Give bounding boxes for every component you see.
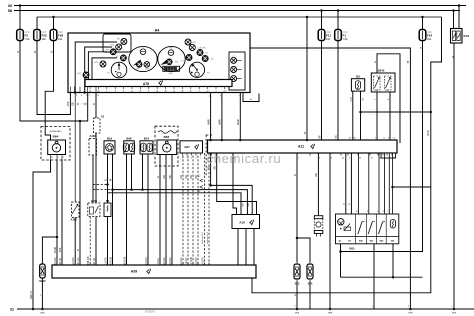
lamp H2 cluster [110, 49, 116, 55]
svg-text:10A: 10A [326, 38, 331, 41]
wire A153 to A39 [95, 217, 97, 266]
node DPN ground [409, 308, 412, 311]
relay A153 dashed [88, 203, 100, 217]
node B2 branch [359, 111, 362, 114]
svg-text:58: 58 [8, 9, 12, 13]
svg-text:9/58 GB: 9/58 GB [87, 256, 90, 265]
A11 bottom pin ticks and numbers [211, 153, 213, 156]
lamp S13 [294, 264, 300, 279]
wire S6-B pin to A11 a [376, 92, 378, 140]
node A11 top 1 [209, 139, 212, 142]
wire B2 right pin to A11 [360, 91, 362, 140]
svg-text:12 (GB): 12 (GB) [190, 257, 193, 266]
wire dashed A153 junction lower [93, 189, 113, 191]
svg-text:20: 20 [223, 91, 225, 93]
svg-text:3: 3 [76, 95, 77, 97]
node step s1 [209, 184, 212, 187]
wire S14 to bus31 [309, 280, 311, 309]
wire B96 left to A39 [126, 154, 128, 265]
wire branch 80 to A39 [79, 121, 81, 265]
fuse F26 [50, 30, 57, 41]
svg-text:GN: GN [186, 175, 188, 179]
fuse F2 [17, 30, 24, 41]
node A11 top 30 [306, 139, 309, 142]
wire jog br under cluster [243, 93, 259, 102]
module A87 [180, 141, 203, 153]
svg-text:abcband 1-3: abcband 1-3 [207, 231, 209, 244]
node bus30-K79 [458, 4, 461, 7]
cluster bottom pin stubs with wire labels [69, 87, 71, 93]
svg-text:28: 28 [359, 158, 361, 160]
fuse F24 [419, 30, 426, 41]
svg-text:(GR): (GR) [40, 313, 45, 315]
svg-text:B19: B19 [107, 136, 113, 140]
wire dashed A153 junction upper [93, 184, 108, 186]
svg-text:GN: GN [164, 175, 166, 179]
svg-text:K79: K79 [464, 34, 470, 38]
lamp T3 column [231, 76, 237, 82]
svg-text:GB: GB [243, 203, 245, 207]
svg-text:GR: GR [316, 173, 318, 177]
svg-text:GN: GN [181, 175, 183, 179]
wire branch to S100 [42, 237, 57, 264]
svg-text:30 (GB): 30 (GB) [110, 257, 113, 266]
wire A11 to A16 step s4 [217, 153, 257, 215]
fuse F11 [318, 30, 325, 41]
wire A11 to bus31 via 330 [329, 153, 331, 309]
lamp H8 cluster [121, 39, 127, 45]
svg-text:B14: B14 [144, 136, 150, 140]
svg-text:34 (R): 34 (R) [55, 247, 57, 254]
svg-text:7: 7 [239, 96, 240, 98]
wire branch to S14 [297, 238, 310, 263]
svg-text:GN: GN [196, 175, 198, 179]
svg-text:S6-B: S6-B [378, 69, 386, 73]
svg-text:B2: B2 [356, 75, 360, 79]
lamp H9 cluster right [185, 39, 191, 45]
svg-text:MAR: MAR [207, 119, 210, 124]
buzzer B34 [314, 216, 323, 219]
wires A11 to switch unit S61 [358, 153, 360, 214]
wire cluster to A11 (MAR 2) [221, 93, 223, 141]
lamp H6 in speedometer [136, 62, 142, 68]
svg-text:1: 1 [200, 158, 201, 160]
svg-text:DPB: DPB [328, 313, 333, 315]
speedometer trip knob [140, 49, 146, 55]
wires A87 dashed to A39 [182, 156, 184, 266]
wire cluster internal L1 [75, 42, 117, 93]
svg-text:67: 67 [335, 138, 337, 140]
svg-text:A76: A76 [143, 82, 149, 86]
svg-text:DPN: DPN [408, 313, 413, 315]
svg-text:abcband 1-3: abcband 1-3 [202, 231, 204, 244]
svg-text:2: 2 [294, 306, 295, 308]
svg-text:MAR: MAR [237, 119, 240, 124]
svg-text:24: 24 [383, 138, 385, 140]
node B4 loop junction [392, 276, 395, 279]
wire F2 to cluster pin [20, 41, 88, 122]
wire B19 step to A16 [113, 190, 248, 215]
tachometer needle [161, 59, 169, 65]
wire B14 right to A39 [147, 154, 149, 265]
svg-text:A39: A39 [131, 270, 137, 274]
svg-text:6: 6 [377, 211, 378, 213]
svg-text:8 (GB): 8 (GB) [163, 257, 166, 264]
svg-text:10A: 10A [58, 38, 63, 41]
wire S61 to loop [340, 243, 342, 245]
wire S8 to A39 [107, 217, 109, 266]
svg-text:31 (G): 31 (G) [77, 257, 80, 264]
svg-text:4 (GN): 4 (GN) [195, 257, 198, 264]
svg-text:F26: F26 [58, 33, 64, 37]
svg-text:31: 31 [10, 308, 14, 312]
node S100 branch [56, 236, 59, 239]
lamp KM in tachometer [167, 59, 173, 65]
svg-text:5: 5 [58, 157, 59, 159]
wire bus30 to K79 [458, 6, 460, 29]
gauge P4 clock [111, 62, 127, 78]
svg-text:(31): (31) [351, 97, 353, 101]
svg-text:+C39+H8: +C39+H8 [197, 48, 207, 50]
svg-text:GB: GB [72, 102, 74, 106]
A39 top pin ticks [56, 263, 58, 266]
node B64 ground [32, 308, 35, 311]
switch unit S6-B [371, 73, 395, 92]
svg-text:7,5A: 7,5A [25, 38, 30, 41]
wire cluster internal L3 [88, 52, 107, 80]
lamp unit B14 [140, 141, 153, 154]
wire A11 dashed branch 1 [204, 153, 206, 265]
svg-text:2: 2 [106, 91, 107, 93]
svg-text:B96: B96 [126, 136, 132, 140]
wire A11 to A16 step s1 [211, 153, 253, 215]
wire bus30 to F2 [19, 6, 21, 30]
svg-text:DPS: DPS [295, 313, 300, 315]
lamp T1 column [231, 57, 237, 63]
svg-text:58L: 58L [386, 90, 389, 92]
svg-text:9 (GR): 9 (GR) [54, 257, 57, 264]
wire A11 to S61 pin b [350, 153, 352, 214]
wires A16 to A39 [237, 229, 239, 266]
svg-text:GB: GB [215, 166, 217, 170]
node A11 top 2 [221, 139, 224, 142]
svg-text:(HY.RELAY): (HY.RELAY) [50, 130, 62, 133]
node S100 ground [41, 308, 44, 311]
svg-text:3 (GN): 3 (GN) [169, 257, 172, 264]
S61 relay element [344, 227, 351, 231]
relay B64 [48, 140, 66, 155]
wire B64 pin5 down [56, 160, 58, 266]
wire A11 to A16 step s5 [233, 153, 237, 215]
B64 pin ticks [50, 155, 52, 160]
svg-text:X1: X1 [101, 115, 105, 119]
lamp T2 column [231, 67, 237, 73]
svg-text:10: 10 [356, 211, 358, 213]
svg-text:2 (GR): 2 (GR) [145, 257, 148, 264]
module A16 [232, 215, 260, 229]
wire B64 pin4 to A39 [61, 160, 63, 266]
svg-text:22: 22 [173, 91, 175, 93]
svg-text:4: 4 [388, 138, 389, 140]
svg-text:F1: F1 [343, 33, 347, 37]
wire cluster internal L2 [85, 47, 112, 93]
feed wire 15/58 horizontal [37, 16, 442, 18]
svg-text:5: 5 [182, 158, 183, 160]
tachometer knob RB [168, 50, 174, 56]
svg-text:GB: GB [248, 203, 250, 207]
svg-text:10A: 10A [427, 38, 432, 41]
relay K79 [451, 29, 463, 44]
relay box B64 dashed [41, 127, 70, 161]
wire B19 left to S8 [107, 154, 109, 203]
node bus30-F2 [19, 4, 22, 7]
wire F1 to A11 [337, 41, 339, 141]
svg-text:3: 3 [408, 306, 409, 308]
node bus58-F11 [320, 9, 323, 12]
wire S61 S32 to bus31 [373, 244, 375, 309]
wire B96 right to junction [131, 154, 133, 190]
switch S100 [40, 264, 46, 278]
svg-text:9/58: 9/58 [60, 247, 62, 252]
wire S8 branch step to A16 [108, 185, 242, 215]
svg-text:F2: F2 [25, 33, 29, 37]
dashed enclosure edge left of A11 [205, 135, 207, 175]
wire A11 to buzzer B34 [317, 153, 319, 216]
wire A11 to S61 pin a [345, 153, 347, 214]
svg-text:30: 30 [8, 4, 12, 8]
svg-text:S8: S8 [106, 199, 110, 203]
wire S6-B pin to A11 b [389, 92, 391, 140]
lamp H7 cluster [120, 55, 126, 61]
wire S61 B4 pin down [392, 244, 394, 277]
svg-text:10A: 10A [42, 38, 47, 41]
svg-text:2: 2 [89, 95, 90, 97]
connector A163 dashed [89, 139, 97, 156]
svg-text:1: 1 [86, 95, 87, 97]
cluster lamp column box [229, 52, 245, 90]
svg-text:6 (GR): 6 (GR) [180, 257, 183, 264]
node S13 ground [296, 308, 299, 311]
svg-text:3K30007: 3K30007 [145, 310, 156, 314]
node S61 feed junction [391, 186, 394, 189]
svg-text:1: 1 [298, 158, 299, 160]
wire B2 left pin to A11 [352, 91, 354, 140]
odometer display A59 [163, 66, 180, 71]
svg-text:10: 10 [190, 91, 192, 93]
speedometer needle [133, 60, 142, 66]
svg-text:KM: KM [175, 62, 178, 64]
connector strip A39 [52, 265, 256, 278]
svg-text:7,5A: 7,5A [343, 38, 348, 41]
lamp S14 [307, 264, 313, 279]
connector strip A11 [208, 140, 398, 153]
svg-text:7 (GR): 7 (GR) [202, 257, 205, 264]
S61 lamp left [338, 219, 344, 225]
wire bus58 to K79 [453, 11, 455, 29]
buzzer B19 [104, 141, 115, 154]
connector X1 [94, 118, 101, 133]
wires B84 to A39 [159, 155, 161, 266]
node S13 branch [296, 237, 299, 240]
cluster telltale sub-box [103, 34, 131, 52]
wire feed down to F24 [422, 17, 424, 30]
svg-text:F24: F24 [427, 33, 433, 37]
wire B14 left to junction [142, 154, 144, 190]
wire lighting feed net [252, 17, 442, 293]
svg-text:7: 7 [216, 91, 217, 93]
svg-text:3: 3 [123, 91, 124, 93]
svg-text:4: 4 [383, 211, 384, 213]
wire cluster to A11 pin13 [239, 93, 241, 141]
svg-text:1 (GR): 1 (GR) [105, 257, 108, 264]
node interchange 2 [111, 188, 114, 191]
svg-text:A16: A16 [239, 221, 245, 225]
node cluster pin b [83, 91, 86, 94]
wire F22 to cluster pin [37, 41, 70, 115]
wire A11 to lamp S13 [296, 153, 298, 263]
wire F26 to relay B64 [45, 41, 53, 141]
wire X1 to A153 [95, 133, 97, 203]
svg-text:B+M: B+M [428, 131, 430, 136]
svg-text:28: 28 [181, 91, 183, 93]
wire B2 branch to riser [361, 111, 431, 113]
svg-text:2: 2 [209, 96, 210, 98]
wire bus58 to F1 [337, 11, 339, 30]
wire A153 dashed out [89, 217, 91, 266]
wire cluster pin 58 to right feed [250, 48, 410, 309]
svg-text:31: 31 [349, 138, 351, 140]
wire junction to right riser [393, 186, 431, 188]
fuse F1 [335, 30, 342, 41]
node cluster pin a [74, 91, 77, 94]
wire cluster to X1 [95, 93, 97, 119]
node DPB ground [329, 308, 332, 311]
svg-text:GB: GB [170, 175, 172, 179]
node feed-A11 [306, 16, 309, 19]
svg-text:4: 4 [187, 158, 188, 160]
continuation arrows [200, 179, 203, 189]
svg-text:10 (G): 10 (G) [185, 257, 188, 264]
horn box B84 dashed [155, 126, 178, 166]
svg-text:9/58: 9/58 [68, 101, 70, 106]
svg-text:12: 12 [131, 91, 133, 93]
wire A163 to A153 [92, 155, 94, 203]
svg-text:2: 2 [388, 211, 389, 213]
svg-text:MAR: MAR [219, 119, 222, 124]
svg-text:3: 3 [115, 91, 116, 93]
node F24-S61 junction [339, 250, 342, 253]
wire cluster to A11 (MAR 1) [210, 93, 212, 141]
svg-text:B84: B84 [164, 135, 170, 139]
wire bus58 to F11 [321, 11, 323, 30]
svg-text:(GR) 31: (GR) 31 [31, 290, 33, 299]
svg-text:27: 27 [139, 91, 141, 93]
svg-text:GN: GN [191, 175, 193, 179]
lamp H23 cluster [100, 61, 106, 67]
svg-text:F22: F22 [42, 33, 48, 37]
A87 pin ticks [182, 153, 184, 156]
S61 switch elements [358, 222, 362, 235]
svg-text:4 (GB): 4 (GB) [72, 257, 75, 264]
svg-text:27: 27 [371, 158, 373, 160]
lamp C9 cluster right [197, 50, 203, 56]
wire F11 to A11 [321, 41, 323, 141]
node bus58-K79 [452, 9, 455, 12]
svg-text:34 (R): 34 (R) [59, 257, 62, 264]
A76 bottom pin numbers [89, 87, 91, 90]
lamp H10 cluster [116, 44, 122, 50]
svg-text:6: 6 [319, 158, 320, 160]
S61 lamp right B4 [390, 220, 395, 229]
svg-text:3: 3 [349, 158, 350, 160]
svg-text:GB: GB [208, 166, 210, 170]
svg-text:12: 12 [348, 204, 350, 206]
svg-text:2: 2 [196, 158, 197, 160]
fuse F22 [34, 30, 41, 41]
svg-text:20: 20 [207, 91, 209, 93]
svg-text:58: 58 [353, 138, 355, 140]
node lighting-B2 branch [430, 111, 433, 114]
diode unit A100 [74, 93, 76, 203]
wire F22 up to feed [36, 17, 38, 30]
wire F26 up to feed [53, 17, 55, 30]
gauge tachometer dial [158, 46, 185, 71]
wire B64 to bus31 [33, 160, 51, 310]
wire cluster internal L4 [92, 58, 117, 80]
svg-text:54 (N): 54 (N) [93, 257, 96, 264]
svg-text:br: br [250, 98, 252, 101]
lamp H22 cluster [83, 72, 89, 78]
svg-text:A153: A153 [91, 199, 98, 203]
node F2-line branch [79, 120, 82, 123]
lamp C7 cluster right [186, 55, 192, 61]
node interchange 1 [106, 183, 109, 186]
gauge P3 fuel [189, 62, 204, 77]
A11 right appendix connector [381, 153, 396, 158]
svg-text:8: 8 [331, 158, 332, 160]
svg-text:DPS: DPS [452, 313, 457, 315]
wire F24 to S61 [341, 41, 423, 252]
S61 internal dividers [354, 214, 356, 244]
svg-text:9: 9 [220, 96, 221, 98]
node DPS right ground [453, 308, 456, 311]
node feed-F26 [52, 16, 55, 19]
svg-text:24: 24 [156, 91, 158, 93]
svg-text:A100: A100 [71, 218, 78, 222]
svg-text:S61: S61 [349, 247, 355, 251]
svg-text:31: 31 [51, 157, 53, 159]
wire K79 to bus31 [453, 43, 455, 309]
switch unit S61 box [336, 214, 399, 244]
connector strip A76 [85, 80, 232, 87]
svg-text:chemicar.ru: chemicar.ru [207, 151, 282, 166]
S61 bottom label band [336, 236, 399, 238]
svg-text:26: 26 [342, 158, 344, 160]
svg-text:F11: F11 [326, 33, 331, 37]
svg-text:24: 24 [393, 158, 395, 160]
lamp unit B96 [124, 141, 135, 154]
svg-text:12: 12 [97, 95, 99, 97]
wire A11 to S61 feed [392, 153, 394, 214]
svg-text:8: 8 [367, 211, 368, 213]
svg-text:7: 7 [375, 138, 376, 140]
svg-text:28: 28 [97, 91, 99, 93]
node B14 junction [141, 188, 144, 191]
svg-text:58 (GN): 58 (GN) [124, 257, 127, 266]
lamp unit B2 [351, 79, 364, 91]
lamp C8 cluster right [202, 56, 208, 62]
node A11 top 3 [239, 139, 242, 142]
